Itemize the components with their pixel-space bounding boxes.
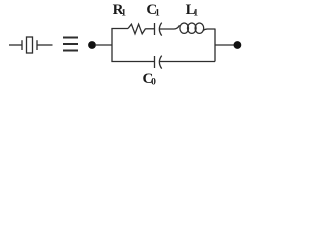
node B (right terminal dot) bbox=[234, 41, 242, 49]
wire right edge to node B bbox=[215, 44, 234, 46]
wire node A to box bbox=[95, 44, 112, 46]
crystal XTAL left lead bbox=[9, 44, 22, 46]
crystal right lead bbox=[38, 44, 53, 46]
node A (left terminal dot) bbox=[88, 41, 96, 49]
inductor L1 loop 1 bbox=[180, 23, 189, 33]
wire bottom rail left bbox=[111, 61, 154, 63]
capacitor C1 left plate bbox=[154, 23, 156, 35]
svg-text:C0: C0 bbox=[143, 71, 157, 88]
capacitor C1 right curved plate bbox=[159, 23, 161, 36]
equivalence symbol bbox=[63, 38, 78, 51]
capacitor C0 left plate bbox=[154, 56, 156, 68]
crystal body rectangle bbox=[27, 37, 33, 53]
wire right vertical edge bbox=[214, 29, 216, 62]
resistor R1 bbox=[128, 24, 146, 34]
wire bottom rail right bbox=[160, 61, 215, 63]
wire inductor to right edge bbox=[203, 29, 215, 31]
crystal right plate bbox=[36, 40, 38, 50]
crystal left plate bbox=[21, 40, 23, 50]
wire resistor to C1 bbox=[146, 28, 155, 30]
inductor L1 loop 3 bbox=[195, 23, 204, 33]
svg-text:L1: L1 bbox=[186, 2, 199, 19]
wire C1 to inductor bbox=[160, 25, 180, 29]
wire top rail to resistor bbox=[111, 28, 128, 30]
wire left vertical edge bbox=[111, 29, 113, 62]
capacitor C0 right curved plate bbox=[159, 56, 161, 69]
svg-text:C1: C1 bbox=[146, 2, 160, 19]
svg-text:R1: R1 bbox=[113, 2, 127, 19]
inductor L1 loop 2 bbox=[188, 23, 197, 33]
